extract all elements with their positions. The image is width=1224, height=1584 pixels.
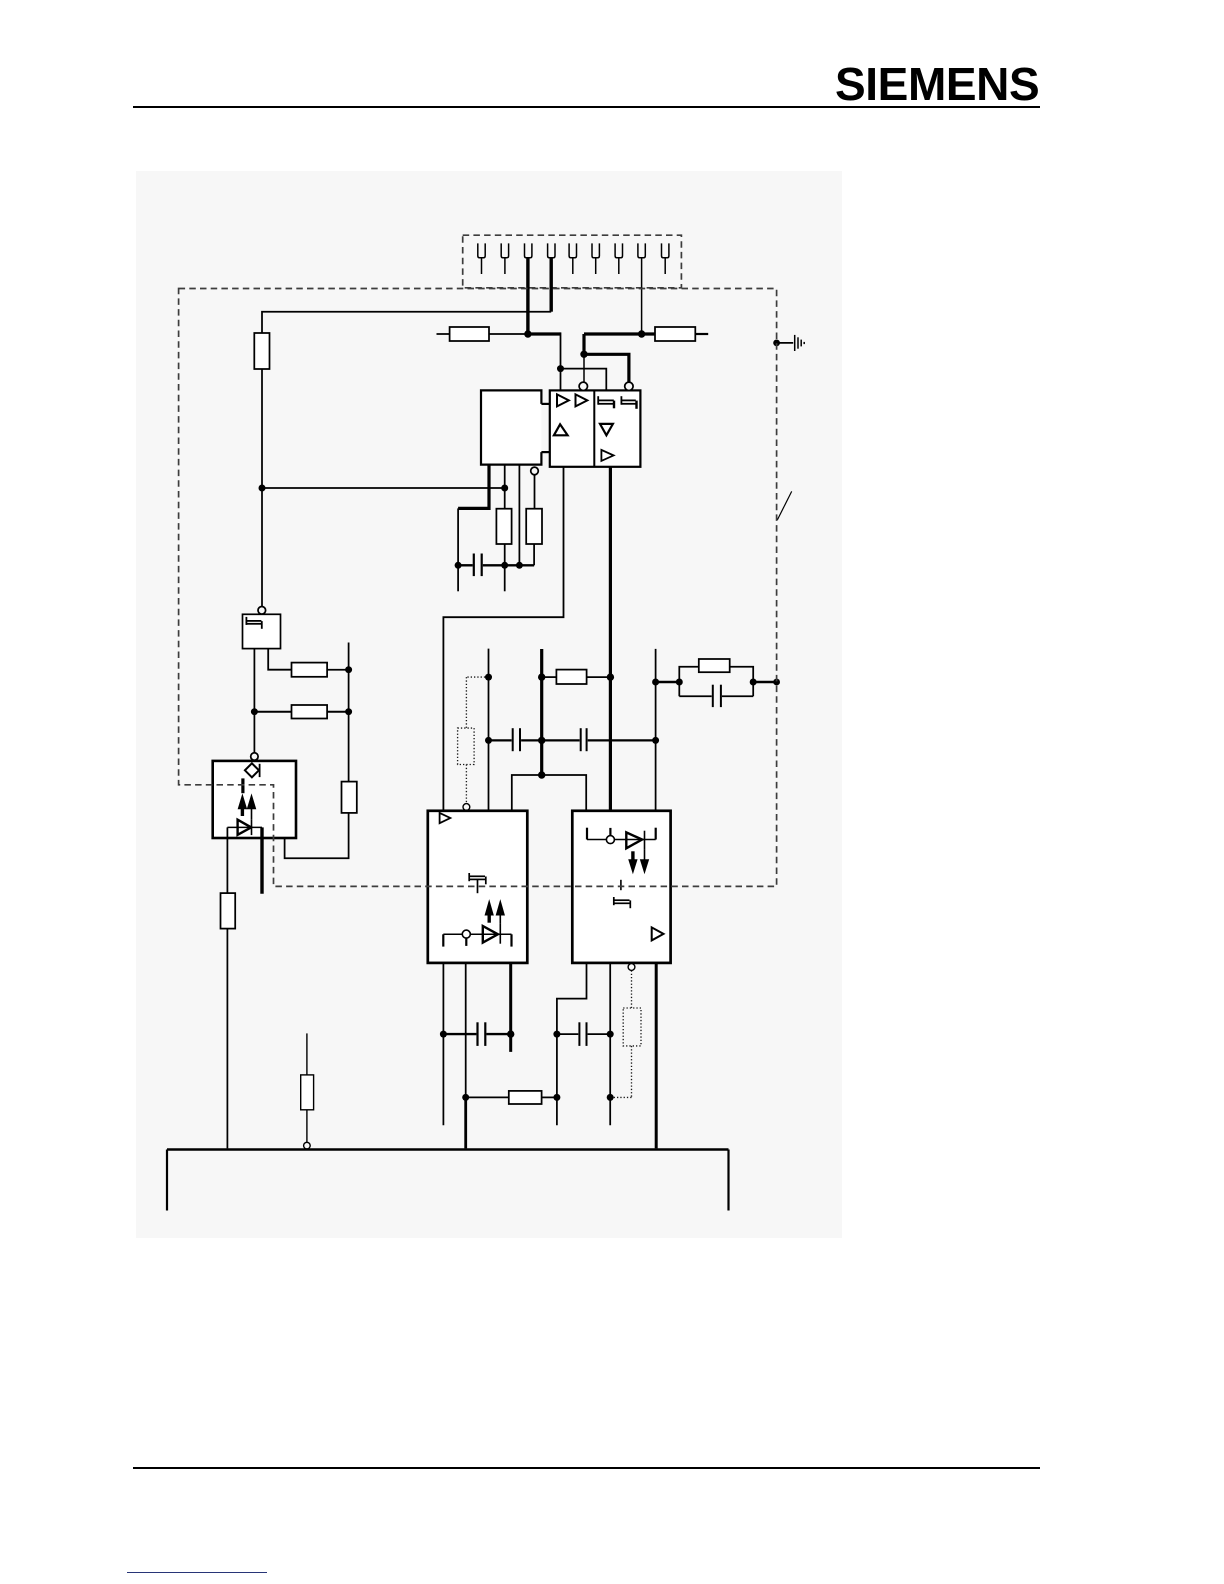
vertical net at x=348.6 — [348, 643, 350, 782]
U7 down arrow b — [641, 849, 649, 872]
R10 right lead and loop right side — [730, 667, 754, 696]
U5 thick gate bar — [241, 778, 244, 793]
U7 diode line — [587, 839, 656, 841]
U5 left pin wire down — [226, 827, 228, 893]
op-amp block U1 body fill — [481, 390, 541, 464]
R5 right lead — [327, 711, 349, 713]
pin 4 — [548, 243, 555, 257]
pin 8 — [638, 243, 645, 257]
wire node C down to U4 bubble — [261, 488, 263, 606]
U1-U2 connecting tab top — [541, 403, 549, 405]
U3 mosfet symbol b — [621, 396, 636, 409]
U3 output triangle — [601, 450, 613, 461]
footer link underline — [127, 1572, 267, 1573]
resistor R13 net top — [306, 1033, 308, 1075]
pin 7 — [615, 243, 622, 274]
U7 pin wire a jog — [557, 963, 587, 1125]
R8 bottom lead — [533, 544, 535, 565]
thyristor block U5 body — [213, 761, 296, 838]
U1-U2 connecting tab bottom — [541, 451, 549, 453]
resistor R11 (vertical) — [221, 893, 236, 929]
U7 diode bubble — [606, 836, 614, 844]
pin 4 stem wire (thick) — [550, 258, 553, 312]
thick wire node E run to R3 — [584, 332, 655, 335]
pin 5 — [569, 243, 576, 274]
U4 left pin down to bubble of U5 — [253, 649, 255, 753]
U2 buffer triangle a — [557, 394, 569, 406]
U3 input bubble — [625, 382, 633, 390]
U7 bubble stem — [609, 828, 611, 836]
U6 pin wire b down to bus — [465, 963, 467, 1098]
R6 bottom wire to U5 pin — [285, 813, 349, 858]
U7 output triangle — [652, 927, 664, 940]
U4 mosfet symbol — [246, 617, 261, 629]
resistor R1 (vertical, top left) — [254, 333, 269, 369]
pin 6 — [592, 243, 599, 274]
U2 bottom pin wire to lower-left — [443, 467, 563, 811]
U1 pin 4 inverting bubble — [531, 467, 539, 475]
R11 bottom wire to bus — [226, 929, 228, 1149]
R7 bottom lead — [504, 544, 506, 565]
right net at x=655.6 — [655, 649, 657, 811]
U3 output thick wire down to U7 — [609, 467, 612, 811]
capacitor C2 plates — [513, 728, 520, 751]
comparator block U6 body — [428, 811, 528, 963]
amplifier block U2+U3 body — [550, 390, 641, 466]
center net at x=488.5 — [488, 649, 490, 811]
thick wire node F to U3 bubble — [584, 354, 629, 382]
wire node C to pin line of U1 — [262, 487, 505, 489]
driver block U7 body — [572, 811, 670, 963]
wire ground stub — [777, 342, 794, 344]
capacitor C5 row wire — [443, 1033, 510, 1035]
R14 bubble at U6 — [463, 804, 470, 811]
thick wire node E down to node F — [582, 334, 585, 354]
split wire to U7 — [542, 775, 587, 811]
R5 row wire — [254, 711, 291, 713]
optional resistor R15 dotted path — [610, 970, 641, 1097]
U6 diode cathode bar — [499, 923, 501, 943]
U5 diamond sensor symbol — [245, 763, 259, 777]
U7 pin wire b down — [609, 963, 611, 1125]
ground symbol — [795, 335, 805, 351]
U6 pin b thick to bus — [464, 1097, 467, 1148]
capacitor C6 plates — [579, 1022, 586, 1046]
R9 right lead — [587, 676, 611, 678]
C4 bottom branch wires — [679, 695, 753, 697]
wire jog down to cap row 1 — [457, 508, 459, 565]
U5 up arrow b — [247, 795, 255, 820]
stub below cap row right — [504, 565, 506, 591]
U1 pin 3 wire down — [518, 465, 520, 566]
U6 pin wire a down — [442, 963, 444, 1125]
U5 diamond tick — [259, 764, 261, 777]
U5 up arrow a — [238, 795, 246, 816]
resistor R10 (horizontal) — [699, 659, 730, 672]
U6 bubble stem — [465, 938, 467, 946]
U7 down arrow a — [629, 851, 637, 872]
U7 diode triangle — [626, 832, 642, 848]
U4 right pin to R4 — [268, 649, 291, 670]
capacitor C1 wire row — [458, 564, 534, 566]
capacitor C5 plates — [478, 1022, 486, 1046]
optional resistor R14 dotted drop — [458, 677, 489, 804]
annotation leader line — [777, 491, 791, 520]
wire node D right into U2 top — [561, 369, 607, 391]
SIEMENS logo — [835, 57, 1055, 111]
bus right drop — [727, 1150, 729, 1211]
U1 pin 4 wire to R8 — [534, 475, 536, 509]
split wire to U6 — [512, 775, 542, 811]
U6 output thick stub — [509, 963, 512, 1052]
pin 8 stem wire (to node B) — [641, 258, 643, 334]
wire corner down to node D — [560, 332, 562, 368]
thick center net at x=541.7 — [540, 649, 543, 775]
wire node F down to U2 bubble — [583, 354, 585, 382]
R10C4 feed wire left — [656, 681, 680, 683]
U5 diode line — [227, 826, 262, 828]
U7 diode right bracket — [655, 828, 657, 840]
resistor R3 (horizontal) — [655, 327, 695, 341]
R15 bubble at U7 bottom — [628, 964, 635, 971]
wire node D down into U2 top — [560, 369, 562, 391]
transistor block U4 — [243, 614, 281, 648]
wire R2 to node A — [489, 333, 528, 335]
R12 right lead — [542, 1096, 557, 1098]
R10C4 wire to boundary — [753, 681, 776, 683]
U1 pin 2 wire down — [504, 465, 506, 509]
U7 mosfet symbol — [614, 897, 631, 908]
R13 bottom lead to bus bubble — [306, 1110, 308, 1143]
pin 2 — [501, 243, 508, 274]
U2 buffer triangle b — [576, 394, 588, 406]
U6 mosfet symbol — [469, 873, 486, 893]
resistor R2 left lead — [437, 333, 450, 335]
R10C4 parallel loop left side — [679, 667, 699, 696]
IC boundary dashed box — [179, 289, 777, 887]
resistor R12 row left lead — [466, 1096, 509, 1098]
bus left drop — [166, 1150, 168, 1211]
resistor R6 (vertical) — [342, 782, 357, 813]
resistor R8 (vertical) — [526, 509, 542, 544]
U3 mosfet symbol a — [598, 396, 614, 408]
U5 diode cathode bar — [251, 820, 253, 835]
wire R1 bottom to node C — [261, 369, 263, 488]
ground bus bar — [167, 1148, 729, 1151]
capacitor C1 plates — [474, 554, 482, 577]
capacitor C4 plates — [713, 685, 721, 707]
U4 top bubble — [258, 607, 266, 615]
resistor R2 (horizontal) — [450, 327, 489, 341]
U6 diode bubble — [462, 930, 470, 938]
U5 top bubble — [251, 753, 258, 760]
wire node A to corner, down to node D — [528, 332, 561, 335]
U6 input triangle — [440, 813, 451, 823]
U7 output thick to bus — [655, 963, 658, 1149]
U5 thick output stub — [260, 827, 263, 893]
op-amp block U1 outline — [481, 390, 541, 464]
U7 diode cathode bar — [644, 831, 646, 850]
capacitor C3 plates — [581, 728, 587, 751]
U2 up triangle — [554, 424, 568, 435]
capacitor C6 row wire — [557, 1033, 610, 1035]
U5 diode triangle — [238, 820, 252, 835]
U6 diode triangle — [483, 926, 498, 943]
pin 9 — [662, 243, 669, 274]
resistor R5 (horizontal) — [292, 705, 328, 719]
schematic background panel — [136, 171, 842, 1238]
U2 input bubble — [579, 382, 587, 390]
R9 left lead — [542, 676, 557, 678]
connector pin box (dashed) — [463, 235, 682, 288]
U6 up arrow b — [496, 901, 504, 923]
U6 diode left bracket — [442, 934, 444, 946]
header rule — [133, 106, 1040, 108]
U7 gate tick — [620, 880, 622, 890]
stub below cap row left — [457, 565, 459, 591]
R4 right lead to node — [327, 669, 349, 671]
U7 diode left bracket — [586, 828, 588, 840]
pin 1 — [478, 243, 485, 274]
bus bubble — [304, 1142, 311, 1149]
resistor R9 (horizontal) — [556, 670, 586, 684]
U1 output pin (thick) down-left jog — [458, 465, 489, 509]
resistor R13 (vertical) — [301, 1075, 314, 1110]
resistor R3 right lead — [695, 333, 708, 335]
footer rule — [133, 1467, 1040, 1469]
U6 diode right bracket — [510, 934, 512, 946]
U6 diode line — [443, 933, 511, 935]
cap row 2 wire — [489, 739, 656, 741]
U6 up arrow a — [485, 901, 493, 923]
U3 down triangle — [600, 424, 613, 435]
resistor R12 (horizontal) — [509, 1091, 542, 1104]
U2/U3 divider — [593, 390, 595, 466]
pin 3 — [525, 243, 532, 257]
resistor R4 (horizontal) — [292, 663, 328, 677]
wire pin4 to R1 top — [262, 312, 551, 333]
junction dots — [251, 330, 780, 1101]
pin 3 stem wire (thick, to node A) — [526, 258, 529, 334]
resistor R7 (vertical) — [496, 509, 511, 544]
